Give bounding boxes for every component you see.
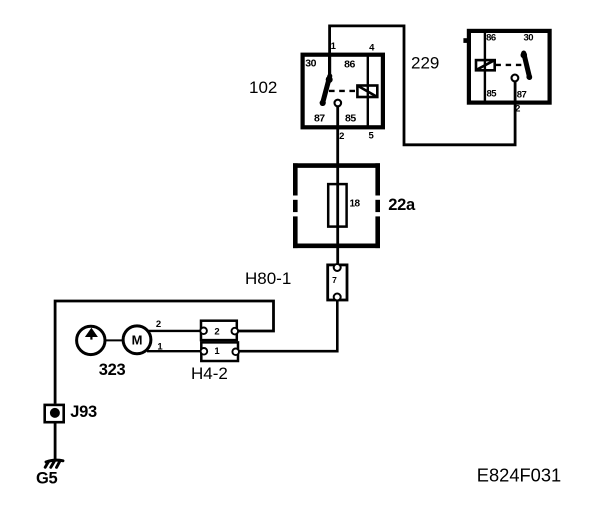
svg-text:323: 323	[99, 361, 126, 379]
svg-text:85: 85	[487, 88, 498, 99]
relay229 switch blade	[524, 53, 530, 78]
wire: relay102 pin2 down through fuse 22a to H80-1	[336, 106, 339, 265]
svg-text:1: 1	[331, 41, 337, 52]
svg-text:102: 102	[249, 78, 277, 97]
svg-text:22a: 22a	[388, 196, 416, 214]
svg-text:30: 30	[305, 58, 316, 70]
motor M circle	[123, 326, 151, 354]
svg-text:1: 1	[157, 342, 163, 353]
relay102 coil	[357, 86, 377, 98]
svg-text:2: 2	[156, 319, 161, 330]
svg-text:7: 7	[332, 275, 337, 285]
fuse box 22a dashed border	[293, 163, 380, 248]
svg-text:J93: J93	[70, 403, 97, 421]
H4-2 pin2 right terminal	[232, 328, 239, 335]
relay102 pin2 contact circle	[335, 100, 342, 107]
H4-2 pin1 left terminal	[201, 348, 208, 355]
svg-text:18: 18	[350, 199, 361, 210]
svg-text:85: 85	[345, 113, 356, 125]
fuse 18 element	[328, 184, 346, 227]
svg-text:H4-2: H4-2	[191, 364, 228, 383]
relay229 coil	[476, 60, 495, 70]
svg-text:30: 30	[524, 33, 534, 44]
wire: relay102 pin1 to relay229 pin2 bus	[330, 26, 515, 145]
H80-1 bottom terminal	[334, 294, 341, 301]
svg-text:G5: G5	[36, 470, 58, 488]
wire: J93 to ground G5	[54, 423, 57, 461]
svg-text:H80-1: H80-1	[245, 269, 291, 288]
svg-text:4: 4	[369, 43, 375, 54]
relay229 pin1 stub	[463, 38, 467, 43]
svg-text:86: 86	[486, 33, 496, 44]
wire: H80-1 down and left to H4-2 pin1	[238, 301, 337, 352]
connector H4-2 pin2 body	[201, 321, 237, 340]
H80-1 top terminal	[334, 264, 341, 271]
pump circle 323	[77, 326, 105, 354]
relay102 pin4-pin5 internal line	[367, 55, 369, 128]
splice J93	[45, 405, 64, 422]
relay229 pin2 contact circle	[512, 75, 519, 82]
relay102 dashed link	[329, 90, 357, 92]
wire: pump to motor link	[106, 339, 123, 341]
svg-text:E824F031: E824F031	[477, 464, 561, 485]
svg-text:229: 229	[411, 53, 439, 72]
svg-text:86: 86	[344, 58, 355, 70]
relay U102 box	[303, 55, 383, 128]
connector H4-2 pin1 body	[201, 342, 238, 361]
svg-text:2: 2	[214, 326, 219, 337]
relay U229 box	[469, 31, 550, 103]
wire: relay102 pin1 internal lead	[328, 53, 331, 76]
svg-text:2: 2	[515, 104, 520, 115]
H4-2 pin1 right terminal	[232, 349, 239, 356]
svg-text:2: 2	[339, 131, 344, 142]
pump nozzle symbol	[85, 328, 98, 337]
connector H80-1 body	[328, 265, 347, 300]
relay229 coil lead	[484, 33, 486, 101]
svg-text:5: 5	[369, 131, 375, 142]
svg-text:87: 87	[314, 113, 325, 125]
svg-text:87: 87	[517, 89, 527, 100]
svg-text:1: 1	[214, 346, 220, 357]
wire: motor M pin1 to H4-2 pin1	[147, 350, 200, 352]
wire: H4-2 pin2 loop to J93 and ground	[55, 301, 273, 404]
relay229 dashed link	[496, 64, 522, 66]
wire: motor M pin2 to H4-2 pin2	[149, 330, 201, 332]
relay102 switch blade	[323, 76, 330, 104]
svg-text:M: M	[132, 333, 143, 348]
H4-2 pin2 left terminal	[200, 328, 207, 335]
ground G5 symbol	[46, 460, 63, 462]
